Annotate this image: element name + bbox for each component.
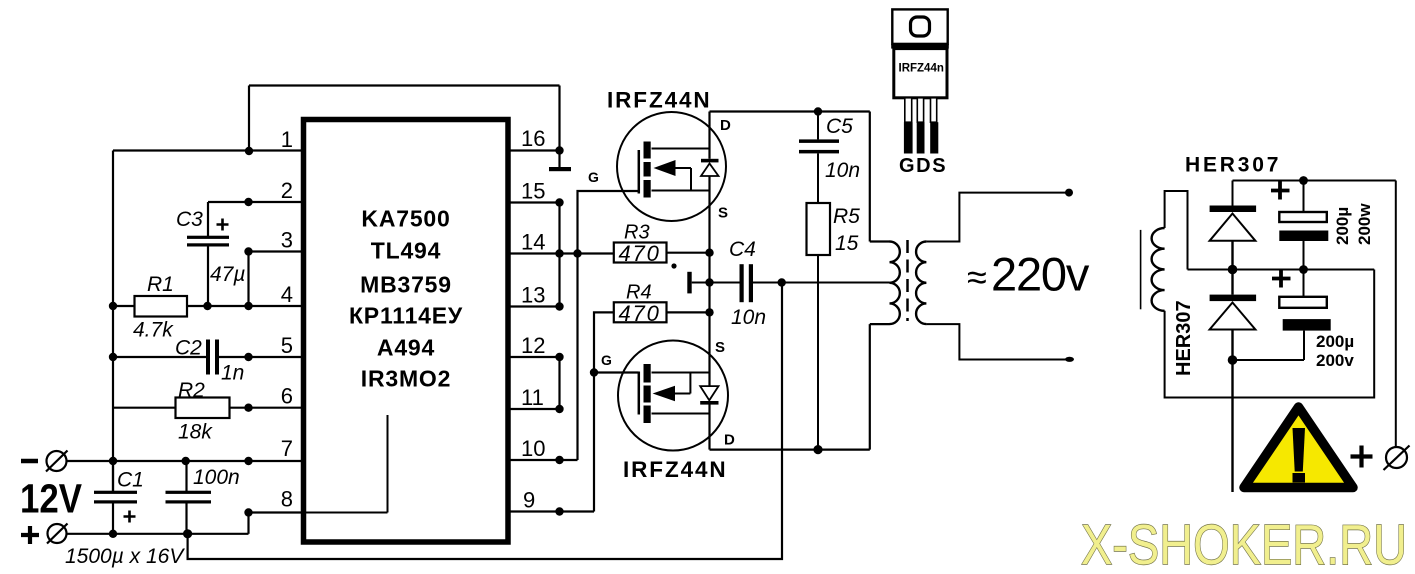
svg-text:16: 16: [521, 126, 545, 151]
svg-text:C1: C1: [117, 469, 144, 492]
svg-text:1500µ x 16V: 1500µ x 16V: [65, 545, 185, 568]
svg-text:КР1114ЕУ: КР1114ЕУ: [349, 303, 463, 329]
svg-text:14: 14: [521, 230, 545, 255]
svg-text:13: 13: [521, 283, 545, 308]
svg-text:HER307: HER307: [1185, 154, 1281, 177]
svg-text:GDS: GDS: [899, 155, 947, 177]
svg-text:200w: 200w: [1355, 203, 1374, 245]
svg-text:G: G: [601, 352, 612, 368]
svg-text:8: 8: [281, 487, 293, 512]
svg-text:12V: 12V: [20, 476, 83, 522]
svg-text:4.7k: 4.7k: [133, 319, 174, 342]
svg-text:47µ: 47µ: [210, 263, 245, 286]
svg-text:HER307: HER307: [1173, 300, 1195, 376]
svg-text:470: 470: [619, 241, 661, 266]
svg-text:6: 6: [281, 384, 293, 409]
svg-text:C3: C3: [176, 208, 203, 231]
svg-text:10: 10: [521, 436, 545, 461]
svg-text:11: 11: [521, 385, 544, 410]
svg-text:200µ: 200µ: [1316, 332, 1354, 351]
svg-text:220v: 220v: [991, 248, 1090, 301]
svg-text:7: 7: [281, 436, 293, 461]
svg-text:4: 4: [281, 282, 293, 307]
svg-text:200v: 200v: [1316, 351, 1354, 370]
svg-text:470: 470: [619, 301, 661, 326]
svg-text:IRFZ44n: IRFZ44n: [899, 63, 944, 75]
svg-text:9: 9: [523, 488, 535, 513]
svg-text:C4: C4: [729, 238, 756, 261]
svg-text:G: G: [588, 169, 599, 185]
svg-text:D: D: [724, 432, 735, 449]
svg-text:10n: 10n: [731, 306, 766, 329]
svg-text:C5: C5: [826, 115, 853, 138]
svg-text:IRFZ44N: IRFZ44N: [607, 88, 712, 113]
svg-text:R5: R5: [833, 205, 860, 228]
svg-text:IR3MO2: IR3MO2: [361, 366, 451, 392]
svg-text:KA7500: KA7500: [361, 206, 450, 232]
svg-text:5: 5: [281, 333, 293, 358]
svg-text:R1: R1: [147, 273, 174, 296]
svg-text:IRFZ44N: IRFZ44N: [623, 457, 728, 482]
svg-text:C2: C2: [175, 337, 202, 360]
svg-text:15: 15: [835, 232, 859, 255]
svg-text:18k: 18k: [178, 421, 213, 444]
svg-text:3: 3: [281, 228, 293, 253]
svg-text:R2: R2: [178, 379, 205, 402]
svg-text:А494: А494: [377, 335, 435, 361]
svg-text:S: S: [718, 205, 728, 222]
svg-text:TL494: TL494: [371, 238, 441, 264]
svg-text:15: 15: [521, 179, 545, 204]
svg-text:D: D: [720, 117, 731, 134]
svg-text:≈: ≈: [967, 257, 987, 298]
svg-text:12: 12: [521, 333, 545, 358]
svg-text:X-SHOKER.RU: X-SHOKER.RU: [1081, 513, 1407, 574]
svg-text:2: 2: [281, 178, 293, 203]
svg-text:MB3759: MB3759: [360, 272, 452, 298]
svg-text:1n: 1n: [221, 362, 244, 385]
svg-text:10n: 10n: [825, 159, 860, 182]
svg-text:S: S: [715, 339, 725, 356]
svg-text:1: 1: [281, 127, 293, 152]
svg-text:200µ: 200µ: [1333, 207, 1352, 245]
svg-text:100n: 100n: [193, 466, 240, 489]
